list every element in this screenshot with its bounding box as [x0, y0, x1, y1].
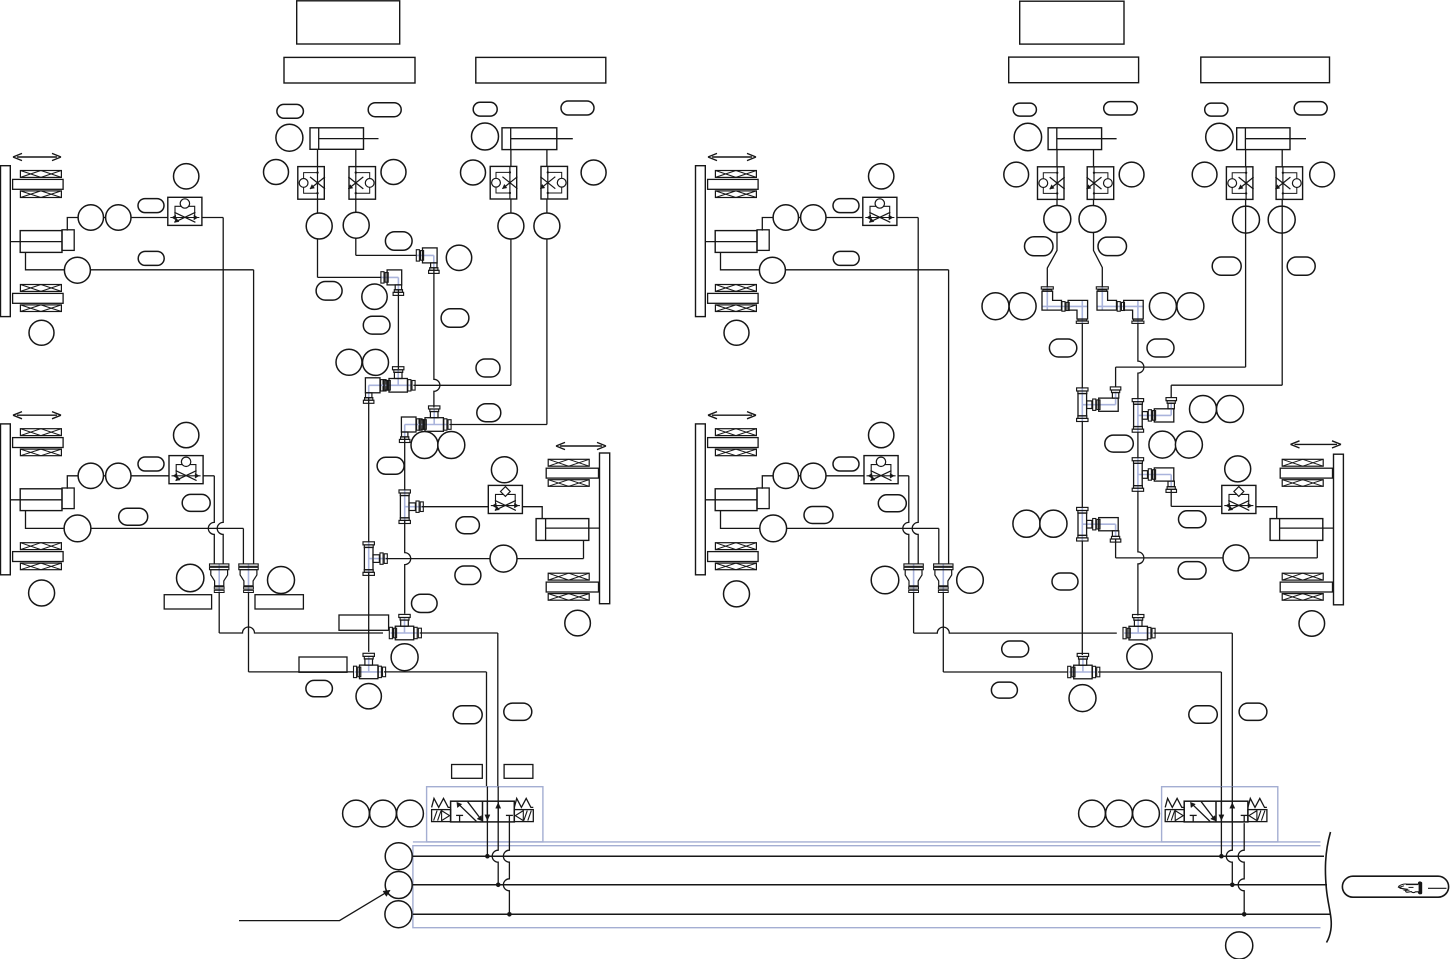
balloon — [64, 515, 91, 542]
wire TE5 right to valve V1 line — [384, 671, 487, 673]
table cylinder — [20, 231, 62, 253]
balloon — [356, 684, 381, 709]
wire Z2 head-end port to funnel Y2 left input — [26, 511, 244, 529]
wire cylinder A to A1 — [317, 149, 319, 166]
Y connector Y4 — [942, 564, 944, 593]
balloon — [878, 495, 906, 512]
balloon — [472, 123, 499, 150]
balloon — [1040, 510, 1067, 537]
balloon — [724, 581, 750, 607]
wire V2 port to manifold P — [1220, 787, 1222, 857]
balloon — [833, 199, 859, 213]
balloon — [362, 284, 387, 309]
label box — [504, 765, 533, 779]
flow control B2 — [541, 166, 568, 199]
wire R2 down to tee R3 — [1137, 432, 1139, 457]
wire Z4 rod-end port to SC4 — [762, 476, 864, 489]
balloon — [277, 104, 304, 118]
balloon — [1013, 510, 1040, 537]
slide table unit Z6 (right, facing left) — [1295, 443, 1338, 445]
wire SC1 out to funnel Y1 right input — [202, 217, 223, 219]
balloon — [174, 164, 199, 189]
wire Y1 out to tee TE4 — [218, 593, 220, 634]
cylinder E — [1237, 128, 1290, 150]
label box — [1020, 1, 1124, 44]
supply note arrow — [239, 893, 386, 921]
wire D1 to S-fitting SF1 — [1047, 199, 1057, 286]
flow control E1 — [1226, 167, 1253, 200]
balloon — [1044, 206, 1071, 233]
balloon — [801, 463, 826, 488]
Y connector Y1 — [218, 564, 220, 593]
balloon — [724, 320, 749, 345]
balloon — [1190, 396, 1217, 423]
wire V1 port to manifold B — [503, 822, 509, 914]
wire V1 port to manifold P — [486, 787, 488, 857]
balloon — [561, 101, 594, 115]
balloon — [1104, 102, 1138, 115]
balloon — [1239, 703, 1267, 720]
balloon — [381, 160, 406, 185]
label box — [1009, 57, 1139, 83]
wire TE4R right to valve V2 line — [1153, 632, 1232, 634]
balloon — [385, 232, 412, 251]
wire TE3 right to cyl B right port — [449, 424, 547, 426]
balloon — [1225, 456, 1251, 482]
balloon — [1175, 431, 1202, 458]
balloon — [982, 293, 1009, 320]
label box — [284, 57, 415, 83]
elbow EL4 — [405, 424, 423, 426]
wire EL4 down to tee TE6 — [404, 438, 406, 493]
label box — [339, 615, 389, 630]
balloon — [441, 309, 469, 328]
speed controller SC1 — [168, 197, 202, 225]
balloon — [1178, 562, 1206, 580]
wire SC6 to SL2 rod port — [1256, 507, 1277, 519]
balloon — [801, 205, 826, 230]
balloon — [991, 682, 1017, 698]
balloon — [1149, 293, 1176, 320]
tee R3 with elbow down — [1137, 458, 1139, 492]
balloon — [106, 205, 131, 230]
balloon — [412, 594, 438, 612]
balloon — [385, 872, 412, 899]
table cylinder — [715, 231, 757, 253]
balloon — [1287, 257, 1315, 275]
wire cylinder B to B2 — [546, 150, 548, 167]
flow control A2 — [349, 167, 376, 200]
balloon — [1069, 685, 1096, 712]
balloon — [446, 245, 471, 270]
balloon — [1223, 545, 1249, 571]
balloon — [177, 564, 204, 591]
balloon — [1179, 511, 1207, 528]
balloon — [1310, 162, 1335, 187]
manifold line B — [413, 913, 1330, 915]
balloon — [869, 164, 894, 189]
label box — [297, 1, 400, 44]
wire R1 down to tee R4 — [1081, 422, 1083, 508]
balloon — [1079, 206, 1106, 233]
balloon — [78, 463, 103, 488]
direction arrow — [712, 414, 752, 416]
solenoid valve V1 — [451, 801, 515, 822]
balloon — [1013, 103, 1036, 116]
wire SC4 out to funnel Y3 left input — [898, 475, 909, 477]
S fitting SF2 — [1101, 287, 1103, 310]
wire A2 to elbow EL1 — [355, 199, 357, 255]
wire Z3 head-end port to funnel Y4 right input — [721, 252, 949, 269]
balloon — [1133, 800, 1160, 827]
balloon — [1098, 237, 1127, 256]
wire V2 port to manifold A — [1226, 787, 1232, 885]
balloon — [565, 610, 591, 636]
manifold line P — [413, 855, 1324, 857]
wire TE7 down to tee TE5 — [368, 573, 370, 652]
wire Y3 out to tee TE4R — [913, 593, 915, 634]
wire EL3 down to tee TE7 — [368, 398, 370, 544]
balloon — [316, 282, 342, 301]
balloon — [1002, 641, 1029, 657]
manifold line A — [413, 884, 1327, 886]
linear guide lower — [20, 285, 61, 292]
speed controller SC3 — [863, 197, 897, 225]
balloon — [1025, 237, 1054, 256]
balloon — [1212, 257, 1241, 275]
balloon — [138, 457, 164, 471]
manifold break symbol — [1325, 832, 1331, 943]
wire A1 to elbow EL2 — [317, 199, 319, 277]
balloon — [1009, 293, 1036, 320]
wire Z1 rod-end port to SC1 — [67, 218, 168, 231]
wire Z3 rod-end port to SC3 — [762, 218, 863, 231]
manifold body — [413, 846, 1321, 928]
table cylinder — [715, 489, 757, 511]
tee R2 with elbow up — [1137, 398, 1139, 432]
balloon — [477, 404, 501, 422]
solenoid valve V2 — [1184, 801, 1248, 822]
balloon — [138, 251, 164, 265]
speed controller SC4 — [864, 456, 898, 484]
balloon — [957, 567, 984, 594]
balloon — [1205, 103, 1228, 116]
flow control B1 — [490, 166, 517, 199]
balloon — [1079, 800, 1106, 827]
wire cylinder A to A2 — [355, 149, 357, 166]
tee TE7 — [368, 542, 370, 576]
elbow EL3 — [369, 384, 387, 386]
direction arrow — [17, 414, 57, 416]
linear guide lower — [20, 543, 61, 550]
linear guide lower — [715, 543, 756, 550]
balloon — [476, 359, 500, 377]
balloon — [1226, 932, 1253, 959]
wire cylinder D to D2 — [1093, 150, 1095, 167]
wire EL1 to tee TE3 — [434, 268, 440, 407]
wire R3 down to tee TE4R — [1138, 491, 1144, 615]
balloon — [106, 463, 131, 488]
wire R3 elbow to speed controller SC6 — [1170, 489, 1172, 506]
wire SC2 out to funnel Y1 left input — [203, 475, 214, 477]
balloon — [833, 251, 859, 265]
balloon — [1106, 800, 1133, 827]
balloon — [534, 213, 560, 239]
label box — [164, 595, 211, 609]
balloon — [1049, 339, 1076, 357]
speed controller SC2 — [169, 456, 203, 484]
wire R4 elbow to slide cylinder SL2 port — [1115, 539, 1117, 558]
balloon — [138, 199, 164, 213]
wire TE5R right to valve V2 line — [1098, 671, 1221, 673]
balloon — [174, 422, 199, 447]
wire TE6 to speed controller SC5 — [422, 506, 489, 508]
wire SC3 out to funnel Y3 right input — [897, 217, 918, 219]
flow control E2 — [1276, 167, 1303, 200]
flow control A1 — [298, 167, 325, 200]
balloon — [1268, 206, 1295, 233]
balloon — [461, 160, 486, 185]
wire TE4 right to valve V1 line — [420, 632, 498, 634]
direction arrow — [712, 156, 752, 158]
balloon — [363, 349, 389, 375]
wire D2 to S-fitting SF2 — [1094, 199, 1103, 286]
balloon — [391, 644, 418, 671]
wire cylinder E to E2 — [1281, 150, 1283, 167]
balloon — [1299, 611, 1325, 637]
wire SF1 to tee R1 — [1081, 323, 1083, 389]
Y connector Y2 — [248, 564, 250, 593]
tee R4 with elbow down — [1081, 507, 1083, 541]
balloon — [869, 422, 894, 447]
balloon — [1119, 162, 1144, 187]
wire E2 to combo R2 elbow — [1281, 199, 1283, 385]
cylinder D — [1048, 128, 1102, 150]
speed controller SC6 — [1222, 485, 1256, 513]
balloon — [473, 102, 497, 116]
balloon — [343, 212, 369, 238]
speed controller SC5 — [488, 485, 522, 513]
balloon — [491, 457, 517, 483]
balloon — [504, 703, 532, 720]
balloon — [64, 257, 90, 283]
balloon — [78, 205, 103, 230]
balloon — [1052, 573, 1078, 590]
direction arrow — [17, 156, 57, 158]
balloon — [1105, 435, 1134, 452]
balloon — [581, 160, 606, 185]
wire cylinder E to E1 — [1245, 150, 1247, 167]
cylinder B — [502, 128, 557, 150]
elbow EL1 — [416, 254, 434, 256]
balloon — [264, 160, 289, 185]
tee TE5R — [1069, 671, 1097, 673]
balloon — [1149, 431, 1176, 458]
balloon — [1177, 293, 1204, 320]
wire SC5 to SL1 rod port — [522, 507, 542, 519]
cylinder A — [310, 128, 364, 150]
balloon — [1014, 123, 1041, 150]
slide cylinder SL2 — [1270, 519, 1323, 541]
label box — [452, 765, 483, 779]
wire R4 down to tee TE5R — [1081, 541, 1083, 655]
wire cylinder D to D1 — [1056, 150, 1058, 167]
balloon — [804, 507, 833, 524]
wire E1 to combo R1 elbow — [1245, 199, 1247, 367]
balloon — [370, 800, 397, 827]
balloon — [377, 457, 404, 474]
balloon — [1004, 162, 1029, 187]
wire Y4 out to tee TE5R — [942, 593, 944, 673]
balloon — [1147, 339, 1174, 357]
balloon — [760, 515, 787, 542]
balloon — [1206, 123, 1233, 150]
linear guide upper — [715, 429, 756, 436]
balloon — [1233, 206, 1260, 233]
balloon — [385, 901, 412, 928]
wire Z2 rod-end port to SC2 — [67, 476, 169, 489]
balloon — [276, 124, 303, 151]
elbow EL2 — [381, 276, 399, 278]
balloon — [1294, 102, 1327, 115]
balloon — [438, 432, 465, 459]
balloon — [1192, 162, 1217, 187]
balloon — [368, 103, 401, 117]
balloon — [119, 508, 148, 525]
wire TE6 down to tee TE4 — [405, 521, 411, 614]
balloon — [268, 567, 295, 594]
linear guide upper — [20, 171, 61, 178]
balloon — [363, 316, 390, 334]
balloon — [490, 545, 517, 572]
label box — [476, 57, 606, 83]
balloon — [833, 457, 859, 471]
wire cylinder B to B1 — [510, 150, 512, 167]
balloon — [336, 349, 362, 375]
label box — [1201, 57, 1330, 83]
balloon — [1127, 644, 1152, 669]
balloon — [397, 800, 424, 827]
wire TE1 right to cyl B left port — [413, 384, 511, 386]
wire Z4 head-end port to funnel Y4 left input — [721, 511, 939, 529]
tee TE1 — [384, 384, 412, 386]
balloon — [29, 320, 54, 345]
Y connector Y3 — [913, 564, 915, 593]
slide table unit Z5 (center, facing left) — [560, 445, 602, 447]
balloon — [411, 432, 438, 459]
balloon — [1189, 706, 1218, 724]
balloon — [1217, 396, 1244, 423]
tee TE4R — [1124, 632, 1152, 634]
linear guide lower — [715, 285, 756, 292]
balloon — [759, 257, 785, 283]
hand pointer label — [1342, 876, 1448, 897]
balloon — [29, 580, 55, 606]
mounting plate — [1, 166, 11, 317]
slide cylinder SL1 — [536, 519, 589, 541]
mounting plate — [696, 166, 706, 317]
wire SF2 to tee R2 — [1138, 323, 1144, 399]
balloon — [385, 843, 412, 870]
mounting plate — [696, 424, 706, 575]
tee TE3 — [420, 424, 448, 426]
valve enclosure box V1 — [427, 787, 543, 842]
balloon — [306, 680, 333, 696]
wire V2 port to manifold B — [1238, 823, 1244, 914]
S fitting SF1 — [1046, 287, 1048, 310]
balloon — [306, 213, 332, 239]
linear guide upper — [20, 429, 61, 436]
balloon — [343, 800, 370, 827]
balloon — [773, 463, 798, 488]
tee R1 with elbow up — [1081, 388, 1083, 422]
balloon — [453, 706, 482, 724]
wire Y2 out to tee TE5 — [248, 593, 250, 672]
balloon — [455, 566, 481, 585]
balloon — [498, 213, 524, 239]
linear guide upper — [715, 171, 756, 178]
table cylinder — [20, 489, 62, 511]
tee TE4 — [391, 632, 419, 634]
valve enclosure box V2 — [1162, 787, 1278, 842]
mounting plate — [1, 424, 11, 575]
flow control D2 — [1087, 167, 1114, 200]
balloon — [456, 517, 480, 534]
flow control D1 — [1038, 167, 1065, 200]
label box — [255, 595, 303, 609]
balloon — [871, 566, 899, 594]
tee TE6 — [404, 490, 406, 524]
balloon — [182, 494, 210, 511]
tee TE5 — [355, 671, 383, 673]
wire V1 port to manifold A — [492, 787, 498, 885]
balloon — [773, 205, 798, 230]
wire EL2 to tee TE1 — [397, 290, 399, 369]
wire Z1 head-end port to funnel Y2 right input — [26, 252, 254, 269]
label box — [299, 657, 347, 672]
wire TE7 to slide cylinder SL1 port — [386, 558, 584, 560]
